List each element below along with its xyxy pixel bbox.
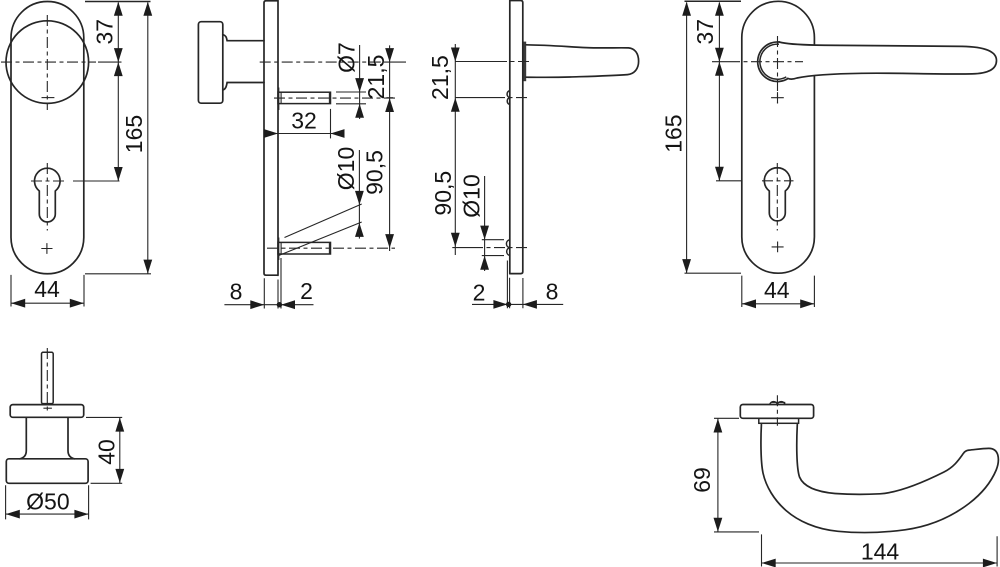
svg-text:21,5: 21,5 [427, 55, 453, 100]
sleeve through-part line 2mm [280, 243, 282, 254]
bottom extension lines 2 and 8 [507, 261, 523, 309]
dim line 21,5 / 90,5 [454, 44, 456, 255]
dim line 2 / 8 [472, 303, 563, 305]
rose center cross tick [771, 401, 786, 403]
svg-text:40: 40 [93, 439, 119, 465]
svg-text:Ø10: Ø10 [458, 174, 484, 217]
lever axis centerline [502, 61, 529, 63]
vertical centerline through keyhole [46, 163, 48, 231]
knob head side profile [198, 22, 222, 104]
lower hole center tick [278, 238, 280, 261]
upper hole center tick [278, 88, 280, 111]
svg-text:2: 2 [473, 280, 486, 306]
dim 144 extension lines [762, 534, 998, 566]
plate strip side view (8mm), lever side [510, 0, 523, 274]
dim 40 extension lines [86, 417, 122, 483]
plate strip side view (8mm) [264, 1, 278, 276]
lever rose inner circle [760, 44, 786, 79]
screw end line [328, 92, 330, 103]
rose vertical centerline [777, 36, 779, 104]
dim 32 extension line [330, 109, 332, 138]
euro profile cylinder keyhole [764, 168, 790, 221]
dim line Ø10 [484, 176, 486, 271]
lower hole extension line [452, 247, 480, 249]
spindle hole bumps on rose [770, 402, 785, 405]
dim line 37 / cylinder distance [117, 3, 119, 182]
knob neck top with fillet [223, 35, 264, 41]
lower hole bump [506, 240, 509, 256]
knob Ø50 front circle [6, 21, 89, 104]
dim line 44 [11, 302, 84, 304]
long plate (44x165) front view, knob side [11, 2, 84, 274]
junction dot [277, 302, 282, 307]
plate bottom extension line [85, 273, 151, 275]
svg-text:144: 144 [861, 539, 900, 565]
upper screw hole bump [507, 91, 510, 105]
plate top extension line [85, 1, 151, 3]
screw tip center tick at dim [386, 97, 393, 99]
svg-text:44: 44 [764, 277, 790, 303]
long plate (44x165) front view, lever side [742, 1, 815, 273]
knob base cylinder Ø50 [6, 459, 88, 484]
knob neck right line with flare [68, 417, 75, 459]
lever rose flange [740, 405, 813, 419]
oblique extension line lower (Ø10) [279, 222, 362, 256]
svg-text:69: 69 [689, 467, 715, 493]
rose vertical centerline [776, 395, 778, 426]
svg-text:Ø7: Ø7 [333, 42, 359, 73]
Ø7 extension lines [336, 92, 366, 104]
svg-text:8: 8 [546, 279, 559, 305]
knob axis extension tick [384, 61, 406, 63]
keyhole center extension line [716, 180, 741, 182]
lower fixing sleeve [278, 242, 331, 254]
spindle centerline [46, 348, 48, 412]
knob center extension tick [98, 61, 122, 63]
horizontal centerline through knob [1, 61, 96, 63]
svg-text:2: 2 [300, 278, 313, 304]
dim line Ø10 oblique [358, 150, 360, 239]
lever grip side profile [526, 45, 639, 78]
dim line 40 [119, 418, 121, 484]
upper screw centerline [274, 97, 395, 99]
dim line 165 [147, 3, 149, 274]
lower screw cross [41, 243, 52, 254]
upper fixing screw (32mm) [278, 92, 331, 103]
knob rose flange [10, 405, 84, 418]
knob neck bottom with fillet [223, 83, 264, 91]
dim 44 extension lines [11, 275, 84, 307]
upper screw cross [771, 92, 784, 103]
svg-text:44: 44 [34, 276, 60, 302]
lever bearing band [759, 418, 799, 423]
spindle base tick [43, 407, 52, 409]
keyhole center extension line [73, 180, 120, 182]
lever handle outline [779, 42, 996, 79]
keyhole vertical centerline [776, 163, 778, 231]
junction dot [506, 302, 511, 307]
lower sleeve centerline [267, 247, 395, 249]
svg-text:Ø50: Ø50 [26, 488, 69, 514]
keyhole horizontal centerline [31, 180, 67, 182]
euro profile cylinder keyhole [35, 168, 61, 222]
svg-text:37: 37 [692, 19, 718, 45]
svg-text:37: 37 [92, 19, 118, 45]
upper screw cross [42, 97, 55, 99]
lever handle white body [778, 42, 997, 79]
svg-text:21,5: 21,5 [363, 55, 389, 100]
upper screw centerline [499, 97, 527, 99]
dim line Ø50 [6, 513, 89, 515]
dim line 37 / cylinder distance [718, 3, 720, 181]
keyhole horizontal centerline [762, 180, 794, 182]
lower hole centerline [480, 247, 527, 249]
svg-text:32: 32 [291, 108, 317, 134]
svg-text:165: 165 [660, 114, 686, 152]
dim line 44 [742, 303, 815, 305]
knob axis centerline [260, 61, 384, 63]
lever bearing ring 2mm (filled) [524, 42, 527, 82]
dim line 21,5 / 90,5 [389, 45, 391, 251]
dim 44 extension lines [742, 276, 815, 307]
knob spindle rod 8mm [42, 352, 54, 403]
sleeve end line [328, 243, 330, 254]
rose horizontal centerline [729, 61, 803, 63]
plate bottom extension line [685, 272, 742, 274]
dim Ø50 extension lines [6, 485, 89, 519]
lever handle curved profile [761, 425, 998, 533]
svg-text:8: 8 [230, 279, 243, 305]
dim 69 extension lines [714, 418, 759, 532]
oblique extension line upper (Ø10) [285, 204, 362, 238]
screw through-part line 2mm [280, 92, 282, 103]
lever axis extension line [455, 61, 502, 63]
lever rose outer circle [758, 42, 788, 82]
rose horizontal centerline extension [712, 61, 729, 63]
lower screw cross [772, 242, 784, 253]
svg-text:165: 165 [121, 115, 147, 153]
dim line 144 [762, 562, 998, 564]
vertical centerline through knob [46, 15, 48, 110]
dim line 69 [717, 418, 719, 531]
dim line 8 / 2 [224, 304, 313, 306]
upper screw extension line [455, 97, 499, 99]
plate top extension line [685, 0, 742, 2]
svg-text:90,5: 90,5 [430, 171, 456, 216]
svg-text:90,5: 90,5 [361, 150, 387, 195]
dim line 165 [686, 3, 688, 274]
dim line Ø7 [359, 45, 361, 119]
bottom extension lines 8 and 2 [264, 258, 281, 309]
svg-text:Ø10: Ø10 [333, 147, 359, 190]
knob neck left line with flare [20, 417, 27, 459]
Ø10 extension lines [482, 240, 504, 256]
dim line 32 [265, 133, 345, 135]
